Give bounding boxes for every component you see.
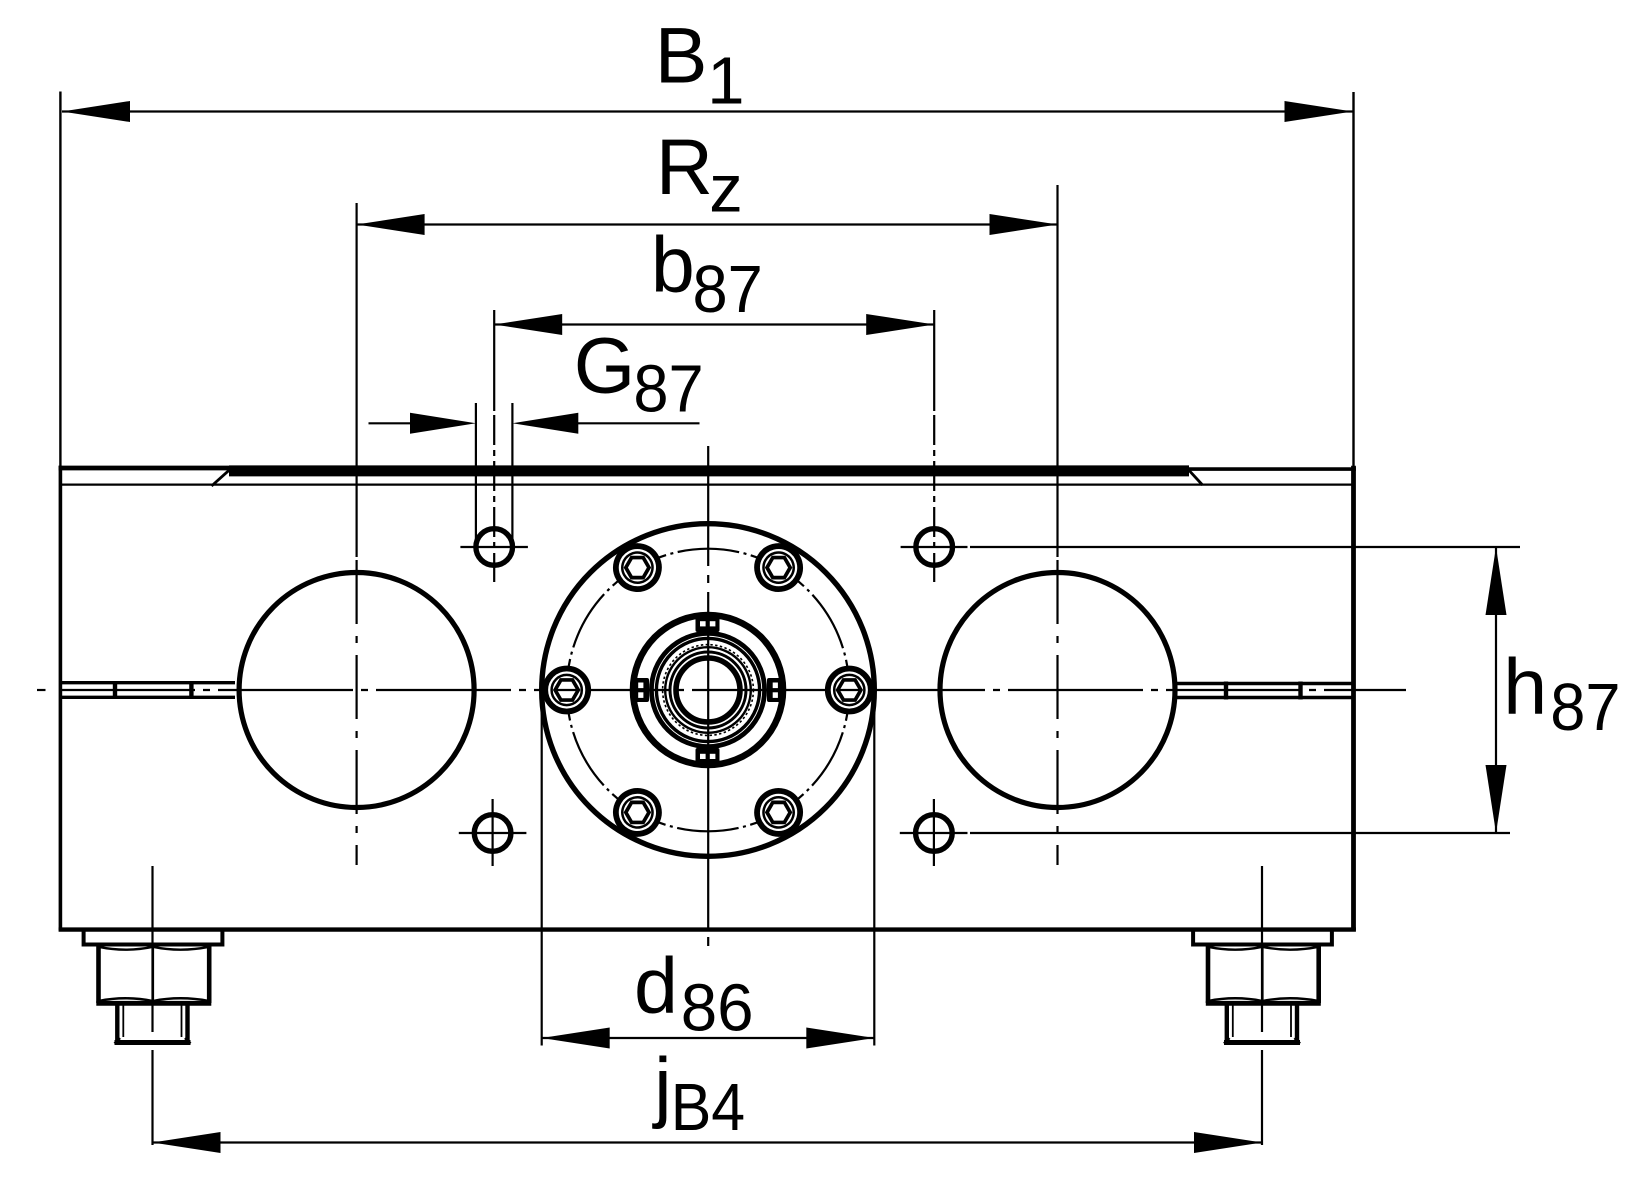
label G87 [574,321,704,427]
left stud hex nut [96,947,211,1004]
label B1 [655,11,745,119]
h87 upper reference line [970,546,1520,548]
right stud hex nut [1206,947,1321,1004]
left stud collar [84,931,223,945]
flange outer circle [542,524,875,857]
left chamfer diagonal [212,470,230,486]
hub locating tab north [696,615,720,633]
right clamping slit [1176,682,1354,700]
bearing cage circle (dotted) [663,645,754,736]
socket head bolt at 0 deg [828,669,871,712]
svg-text:G: G [574,321,635,410]
svg-text:87: 87 [633,351,703,426]
right bore circle [940,573,1175,808]
bearing inner ring [656,638,759,741]
svg-text:87: 87 [693,252,763,327]
mounting hole crosshairs [459,547,968,866]
left stud threaded end [115,1006,191,1044]
dimension G87 [369,413,700,434]
left bore vertical centerline + Rz extension [356,203,358,865]
housing body right edge + B1 extension line [1352,92,1354,466]
svg-text:B4: B4 [671,1070,745,1145]
svg-text:1: 1 [707,43,744,118]
svg-text:R: R [656,122,713,211]
label jB4 [652,1040,745,1145]
svg-text:86: 86 [681,971,754,1046]
label Rz [656,122,743,227]
svg-text:j: j [652,1040,672,1129]
dimension jB4 [153,1132,1263,1153]
main horizontal centerline [37,689,1406,691]
lower-left mounting hole [474,815,511,852]
upper-right mounting hole [916,529,953,566]
socket head bolt at 120 deg [608,783,667,842]
bearing outer ring [651,633,764,746]
h87 lower reference line [970,832,1510,834]
left bore circle [239,573,474,808]
right stud threaded end [1224,1006,1300,1044]
svg-text:z: z [709,151,743,226]
right bore vertical centerline + Rz extension [1056,185,1058,865]
lower-right mounting hole [916,815,953,852]
svg-text:87: 87 [1550,670,1620,745]
label d86 [634,940,754,1045]
svg-text:b: b [651,219,695,308]
flange bolt circle (dash-dot) [567,549,850,832]
svg-text:d: d [634,940,678,1029]
socket head bolt at 60 deg [749,783,808,842]
right stud centerline + jB4 extension [1261,866,1263,1148]
dimension d86 [542,1028,875,1049]
dimension Rz [357,214,1058,235]
housing body top edge right section [1189,467,1356,471]
hub locating tab west [632,678,650,702]
svg-text:B: B [655,11,708,100]
upper-left hole centerline + b87 extension [493,310,495,582]
d86 right tangent extension line [873,690,875,1046]
shaft bore ring [676,658,740,722]
svg-text:h: h [1503,642,1547,731]
upper-left mounting hole [476,529,513,566]
bearing race circle [665,647,751,733]
top cover seam line [60,484,1354,486]
flange vertical centerline [707,446,709,946]
right chamfer diagonal [1189,470,1203,485]
hub locating tab east [767,678,785,702]
right stud collar [1193,931,1332,945]
dimension h87 [1486,547,1507,833]
left clamping slit [62,681,235,699]
dimension b87 [494,314,934,335]
housing body left edge + B1 extension line [59,92,61,467]
socket head bolt at 240 deg [608,538,667,597]
left stud centerline + jB4 extension [151,866,153,1148]
hub locating tab south [696,748,720,766]
label h87 [1503,642,1620,746]
centerline bits inside horizontal bolt hexagons [555,689,861,691]
upper-right hole centerline + b87 extension [933,310,935,582]
G87 tangent extension lines [476,403,513,543]
label b87 [651,219,763,327]
housing body top edge middle band [229,465,1189,476]
housing body bottom edge [59,927,1356,931]
dimension B1 [62,101,1353,122]
socket head bolt at 180 deg [545,669,588,712]
shaft seat circle [670,652,746,728]
housing body top edge left section [59,466,229,471]
d86 left tangent extension line [541,690,543,1046]
hub housing ring [633,615,783,765]
socket head bolt at 300 deg [749,538,808,597]
